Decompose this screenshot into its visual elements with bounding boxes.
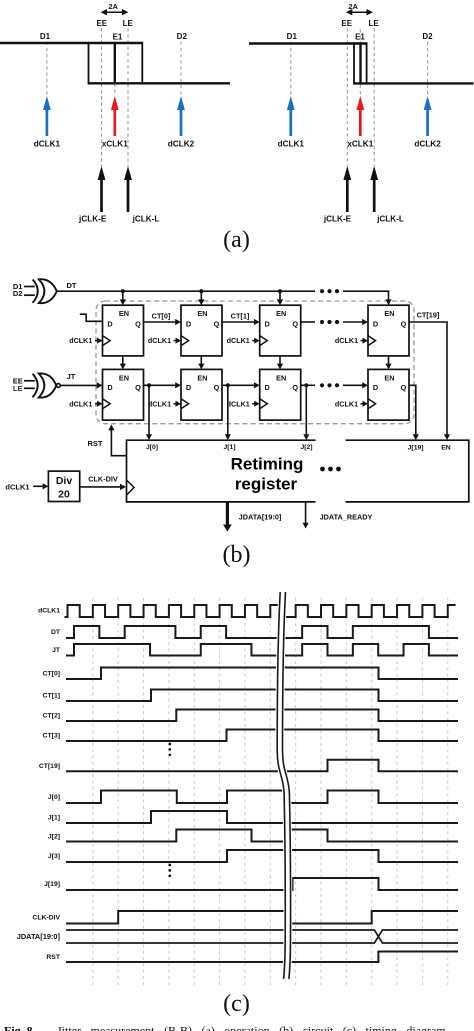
svg-text:jCLK-E: jCLK-E	[78, 215, 107, 224]
wire: bottom row Q chain segment col2	[222, 384, 255, 386]
edge E1 (nominal falling edge)	[114, 42, 116, 85]
svg-text:JDATA[19:0]: JDATA[19:0]	[239, 513, 282, 522]
clock pin triangle of U5 (CT[2] stage)	[260, 336, 268, 346]
clock pin triangle of U3 (CT[0] stage)	[103, 336, 111, 346]
svg-text:jCLK-E: jCLK-E	[323, 215, 352, 224]
svg-text:Q: Q	[401, 320, 407, 329]
svg-text:dCLK2: dCLK2	[414, 140, 441, 149]
wire: D1 input stub	[24, 286, 35, 288]
timeline break symbol (white band)	[280, 592, 288, 979]
node E1 dashed line	[114, 83, 116, 96]
wire: D2 input stub	[24, 294, 35, 296]
svg-text:2A: 2A	[108, 2, 118, 11]
node D2 dashed line	[180, 42, 182, 97]
svg-text:2A: 2A	[348, 2, 358, 11]
wire: dCLK1 to clock pin	[174, 340, 177, 342]
svg-text:Div: Div	[56, 475, 73, 487]
svg-text:dCLK1: dCLK1	[69, 399, 92, 408]
clock pin triangle of U9 (J[2] stage)	[260, 399, 268, 409]
arrow dCLK2 (blue)	[424, 96, 432, 136]
waveform DT	[66, 626, 458, 638]
waveform J[19]	[66, 878, 458, 890]
svg-text:dCLK1: dCLK1	[148, 336, 171, 345]
svg-text:CT[19]: CT[19]	[39, 763, 60, 770]
svg-text:CT[0]: CT[0]	[152, 312, 171, 321]
edge LE (late falling edge)	[141, 42, 143, 85]
junction J[0] branch	[147, 383, 151, 387]
svg-text:E1: E1	[113, 33, 123, 42]
node LE dashed line	[373, 28, 375, 166]
svg-text:Q: Q	[135, 383, 141, 392]
svg-text:dCLK1: dCLK1	[278, 140, 305, 149]
svg-text:CT[1]: CT[1]	[43, 692, 60, 699]
svg-text:EN: EN	[119, 373, 129, 382]
svg-text:EN: EN	[276, 309, 286, 318]
svg-text:EN: EN	[276, 373, 286, 382]
clock pin triangle of U8 (J[1] stage)	[181, 399, 189, 409]
timing grid dashed lines	[92, 598, 94, 985]
vertical ellipsis dots (CT group)	[168, 743, 171, 746]
svg-text:dCLK1: dCLK1	[335, 336, 358, 345]
svg-text:JDATA[19:0]: JDATA[19:0]	[17, 932, 61, 941]
svg-text:D: D	[186, 320, 191, 329]
timeline break symbol (left curve)	[277, 592, 285, 979]
wire: signal high level line	[249, 42, 367, 44]
wire: signal low level line	[89, 82, 231, 84]
svg-text:(c): (c)	[223, 991, 250, 1017]
svg-text:Jitter measurement (B-B) (a) o: Jitter measurement (B-B) (a) operation (…	[57, 1023, 449, 1031]
arrow dCLK1 (blue)	[287, 96, 295, 136]
junction on DT net above col1	[121, 289, 125, 293]
clock pin triangle of U6 (CT[19] stage)	[368, 336, 376, 346]
waveform JT	[66, 644, 458, 656]
waveform CT[0]	[66, 668, 458, 680]
arrow jCLK-E (black)	[343, 166, 351, 212]
svg-text:D1: D1	[40, 32, 51, 41]
svg-text:jCLK-L: jCLK-L	[376, 215, 404, 224]
svg-text:J[0]: J[0]	[146, 444, 158, 451]
wire: EE input stub	[24, 380, 35, 382]
D flip-flop U7 (J[0] stage)	[103, 369, 144, 420]
wire: dCLK1 to clock pin	[252, 403, 255, 405]
wire: top DFF to EN of bottom DFF col3	[279, 356, 281, 365]
svg-text:EN: EN	[441, 445, 451, 452]
XOR gate U1 (inputs D1, D2)	[33, 280, 38, 303]
wire: dCLK1 to clock pin	[361, 403, 364, 405]
svg-text:J[0]: J[0]	[48, 794, 60, 801]
svg-text:CLK-DIV: CLK-DIV	[32, 914, 60, 921]
svg-text:dCLK1: dCLK1	[227, 336, 250, 345]
node D1 dashed line	[46, 42, 48, 97]
svg-text:Fig. 8.: Fig. 8.	[4, 1023, 36, 1031]
waveform CT[1]	[66, 690, 458, 702]
ellipsis dots on DT net	[320, 289, 324, 293]
svg-text:JDATA_READY: JDATA_READY	[320, 513, 373, 522]
edge EE (early falling edge)	[353, 42, 355, 84]
wire: LE input stub	[24, 387, 35, 389]
wire: RST net	[111, 430, 126, 456]
wire: dCLK1 to clock pin	[174, 403, 177, 405]
ellipsis dots on CT chain	[320, 320, 324, 324]
wire: DT to EN of top DFF col1	[122, 291, 124, 301]
svg-text:dCLK1: dCLK1	[69, 336, 92, 345]
arrow jCLK-E (black)	[98, 166, 106, 212]
svg-text:D2: D2	[13, 289, 23, 298]
svg-text:CT[0]: CT[0]	[43, 670, 60, 677]
svg-text:CLK-DIV: CLK-DIV	[88, 475, 118, 484]
wire: CT[0] net (U3.Q to U4.D)	[144, 321, 177, 323]
svg-text:LE: LE	[123, 19, 134, 28]
svg-text:CT[1]: CT[1]	[231, 312, 250, 321]
wire: signal low level line	[354, 82, 474, 84]
wire: dCLK1 to clock pin	[95, 403, 98, 405]
junction on DT net above col2	[199, 289, 203, 293]
svg-text:J[3]: J[3]	[48, 853, 60, 860]
D flip-flop U9 (J[2] stage)	[260, 369, 301, 420]
wire: signal high level line	[0, 42, 142, 44]
svg-text:J[1]: J[1]	[223, 444, 235, 451]
svg-text:register: register	[235, 475, 298, 494]
wire: top DFF to EN of bottom DFF col2	[200, 356, 202, 365]
wire: bottom chain into U10.D	[343, 384, 364, 386]
wire: CT[19] net (U6.Q to retiming EN)	[409, 322, 447, 436]
svg-text:J[1]: J[1]	[48, 814, 60, 821]
svg-text:dCLK1: dCLK1	[5, 482, 29, 491]
svg-text:(a): (a)	[223, 227, 250, 253]
wire: bottom row Q chain segment col3	[301, 384, 315, 386]
svg-text:J[2]: J[2]	[300, 444, 312, 451]
wire: dCLK1 to clock pin	[252, 340, 255, 342]
D flip-flop U8 (J[1] stage)	[181, 369, 222, 420]
svg-text:Q: Q	[214, 320, 220, 329]
wire: DT to EN of top DFF col3	[279, 291, 281, 301]
retiming register block (right part)	[346, 440, 469, 502]
svg-text:DT: DT	[51, 629, 61, 636]
svg-text:EE: EE	[96, 19, 107, 28]
svg-text:dCLK1: dCLK1	[227, 399, 250, 408]
waveform J[3]	[66, 850, 458, 862]
svg-text:JT: JT	[67, 372, 76, 381]
waveform CT[19]	[66, 760, 458, 772]
svg-text:jCLK-L: jCLK-L	[132, 215, 160, 224]
svg-text:D2: D2	[422, 32, 433, 41]
waveform CT[2]	[66, 710, 458, 722]
edge LE (late falling edge)	[366, 42, 368, 84]
node D1 dashed line	[290, 42, 292, 97]
svg-text:Q: Q	[214, 383, 220, 392]
wire: DT to EN of top DFF col2	[200, 291, 202, 301]
wire: JT net from U2 output	[60, 384, 98, 386]
junction J[2] branch	[304, 383, 308, 387]
wire: dCLK1 to clock pin	[361, 340, 364, 342]
svg-text:LE: LE	[368, 19, 379, 28]
retiming register block (left part)	[127, 440, 316, 502]
clock pin triangle of U10 (J[19] stage)	[368, 399, 376, 409]
waveform CLK-DIV	[66, 911, 458, 924]
waveform J[1]	[66, 811, 458, 823]
junction J[1] branch	[226, 383, 230, 387]
edge E1 (nominal falling edge)	[359, 42, 361, 84]
wire: bottom row Q chain segment col1	[144, 384, 177, 386]
svg-text:dCLK1: dCLK1	[38, 607, 60, 614]
wire: CLK-DIV net (Div 20 to retiming clock)	[80, 486, 121, 488]
svg-text:LE: LE	[13, 384, 23, 393]
ellipsis dots between retiming register halves	[320, 467, 325, 472]
svg-text:EN: EN	[384, 309, 394, 318]
wire: JDATA_READY output arrow	[305, 502, 307, 524]
waveform JDATA[19:0] bus line 2	[66, 930, 458, 943]
wire: J[0] drop to retiming register	[148, 385, 150, 435]
svg-text:E1: E1	[355, 33, 365, 42]
timeline break symbol (right curve)	[283, 592, 291, 979]
svg-text:D: D	[265, 320, 270, 329]
edge EE (early falling edge)	[88, 42, 90, 85]
node EE dashed line	[101, 28, 103, 166]
wire: CT[1] net (U4.Q to U5.D)	[222, 321, 255, 323]
svg-text:D: D	[186, 383, 191, 392]
svg-text:xCLK1: xCLK1	[347, 140, 373, 149]
waveform dCLK1 (clock)	[65, 605, 456, 617]
wire: J[19] net (U10.Q to retiming register)	[409, 385, 416, 435]
svg-text:EN: EN	[119, 309, 129, 318]
wire: CT chain continues (U5.Q)	[301, 321, 315, 323]
svg-text:Q: Q	[292, 383, 298, 392]
svg-text:dCLK1: dCLK1	[148, 399, 171, 408]
svg-text:Q: Q	[135, 320, 141, 329]
wire: top DFF to EN of bottom DFF col1	[122, 356, 124, 365]
svg-text:J[2]: J[2]	[48, 833, 60, 840]
svg-text:20: 20	[58, 489, 70, 501]
svg-text:D: D	[373, 320, 378, 329]
svg-text:CT[2]: CT[2]	[43, 712, 60, 719]
svg-text:EN: EN	[197, 373, 207, 382]
svg-text:(b): (b)	[223, 542, 251, 568]
svg-text:EN: EN	[197, 309, 207, 318]
svg-text:dCLK1: dCLK1	[335, 399, 358, 408]
svg-text:EN: EN	[384, 373, 394, 382]
svg-text:EE: EE	[341, 19, 352, 28]
D flip-flop U4 (CT[1] stage)	[181, 305, 222, 356]
svg-text:DT: DT	[67, 281, 77, 290]
dimension arrow 2A	[105, 11, 125, 13]
wire: CT chain into U6.D	[343, 321, 364, 323]
D flip-flop U10 (J[19] stage)	[368, 369, 409, 420]
wire: DT to EN of top DFF col4	[388, 291, 390, 301]
XNOR gate U2 (inputs EE, LE)	[33, 374, 38, 398]
clock pin triangle of U4 (CT[1] stage)	[181, 336, 189, 346]
arrow xCLK1 (red)	[356, 96, 364, 136]
svg-text:Retiming: Retiming	[231, 455, 304, 474]
D flip-flop U6 (CT[19] stage)	[368, 305, 409, 356]
svg-text:dCLK1: dCLK1	[34, 140, 61, 149]
svg-text:D: D	[373, 383, 378, 392]
wire: J[1] drop to retiming register	[227, 385, 229, 435]
wire: dCLK1 to clock pin	[95, 340, 98, 342]
clock pin triangle of retiming register	[127, 480, 135, 495]
D flip-flop U5 (CT[2] stage)	[260, 305, 301, 356]
arrow jCLK-L (black)	[124, 166, 132, 212]
wire: JDATA[19:0] bus output arrow (thick)	[223, 502, 232, 532]
junction on DT net above col3	[278, 289, 282, 293]
svg-text:CT[19]: CT[19]	[417, 311, 440, 320]
wire: top DFF to EN of bottom DFF col4	[388, 356, 390, 365]
waveform J[2]	[66, 830, 458, 842]
svg-text:J[19]: J[19]	[408, 445, 424, 452]
ellipsis dots on bottom Q chain	[320, 383, 324, 387]
svg-text:CT[3]: CT[3]	[43, 732, 60, 739]
wire: J[2] drop to retiming register	[305, 385, 307, 435]
svg-text:RST: RST	[88, 439, 103, 448]
dashed enclosure box around DFF array	[96, 301, 414, 424]
node EE dashed line	[346, 28, 348, 166]
svg-text:Q: Q	[401, 383, 407, 392]
node D2 dashed line	[427, 42, 429, 97]
waveform RST	[66, 952, 458, 963]
wire: dCLK1 into Div 20	[33, 485, 42, 487]
D flip-flop U3 (CT[0] stage)	[103, 305, 144, 356]
svg-text:dCLK2: dCLK2	[168, 140, 195, 149]
svg-text:Q: Q	[292, 320, 298, 329]
arrow dCLK1 (blue)	[43, 96, 51, 136]
node E1 dashed line	[359, 29, 361, 96]
svg-text:D2: D2	[177, 32, 188, 41]
node LE dashed line	[127, 28, 129, 166]
waveform CT[3]	[66, 730, 458, 742]
waveform J[0]	[66, 791, 458, 804]
svg-text:D: D	[107, 383, 112, 392]
divider block Div 20	[48, 471, 79, 501]
clock pin triangle of U7 (J[0] stage)	[103, 399, 111, 409]
svg-text:xCLK1: xCLK1	[102, 140, 128, 149]
svg-text:JT: JT	[52, 647, 61, 654]
dimension arrow 2A	[350, 11, 369, 13]
svg-text:RST: RST	[46, 954, 60, 961]
arrow jCLK-L (black)	[370, 166, 378, 212]
vertical ellipsis dots (J group)	[168, 864, 171, 867]
wire: DT net from U1 output	[57, 290, 315, 292]
svg-text:D: D	[107, 320, 112, 329]
svg-text:D1: D1	[287, 32, 298, 41]
wire: DT net continues to col4	[343, 290, 389, 292]
svg-text:J[19]: J[19]	[44, 881, 60, 888]
waveform JDATA[19:0] bus line 1	[66, 930, 458, 943]
arrow xCLK1 (red)	[111, 96, 119, 136]
arrow dCLK2 (blue)	[177, 96, 185, 136]
svg-text:D: D	[265, 383, 270, 392]
step-waveform glyph at D input of U3	[80, 314, 102, 321]
